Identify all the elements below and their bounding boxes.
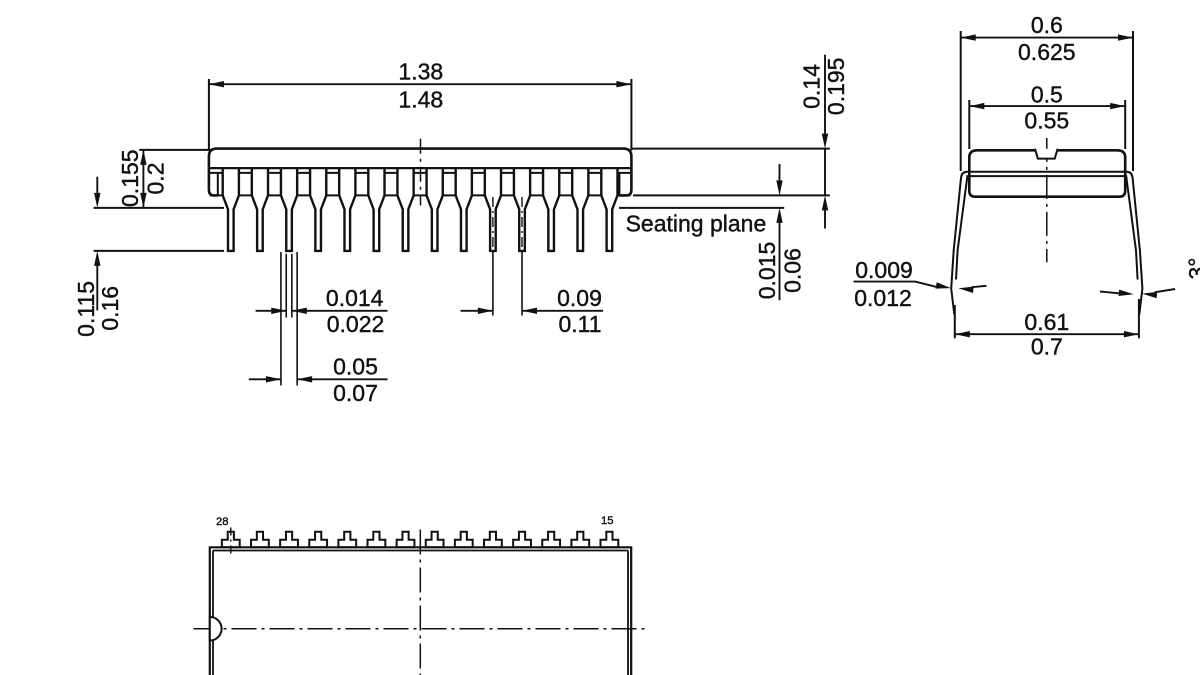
svg-text:0.195: 0.195 — [823, 58, 849, 116]
svg-text:0.015: 0.015 — [754, 242, 780, 300]
svg-text:15: 15 — [601, 515, 614, 527]
svg-text:0.115: 0.115 — [73, 281, 99, 337]
svg-text:1.48: 1.48 — [398, 87, 443, 113]
svg-text:Seating plane: Seating plane — [626, 210, 767, 236]
svg-text:0.7: 0.7 — [1031, 334, 1063, 360]
svg-text:28: 28 — [216, 516, 229, 528]
svg-text:0.012: 0.012 — [854, 285, 912, 311]
svg-text:0.55: 0.55 — [1024, 107, 1069, 133]
svg-text:0.155: 0.155 — [117, 149, 143, 207]
svg-text:0.625: 0.625 — [1018, 39, 1076, 65]
svg-text:0.61: 0.61 — [1024, 309, 1069, 335]
svg-text:0.06: 0.06 — [780, 248, 806, 293]
svg-text:1.38: 1.38 — [398, 58, 443, 84]
svg-text:0.16: 0.16 — [97, 286, 123, 331]
svg-text:0.5: 0.5 — [1031, 81, 1063, 107]
svg-text:0.6: 0.6 — [1031, 12, 1063, 38]
svg-text:0.014: 0.014 — [326, 285, 384, 311]
svg-text:0.2: 0.2 — [143, 163, 169, 195]
svg-text:0.009: 0.009 — [855, 257, 913, 283]
svg-text:0.05: 0.05 — [333, 353, 378, 379]
svg-text:0.14: 0.14 — [799, 64, 825, 109]
svg-text:0.07: 0.07 — [333, 380, 378, 406]
svg-text:0.09: 0.09 — [557, 285, 602, 311]
svg-text:0.022: 0.022 — [327, 311, 385, 337]
svg-text:0.11: 0.11 — [558, 311, 601, 337]
svg-text:3°: 3° — [1184, 258, 1200, 280]
